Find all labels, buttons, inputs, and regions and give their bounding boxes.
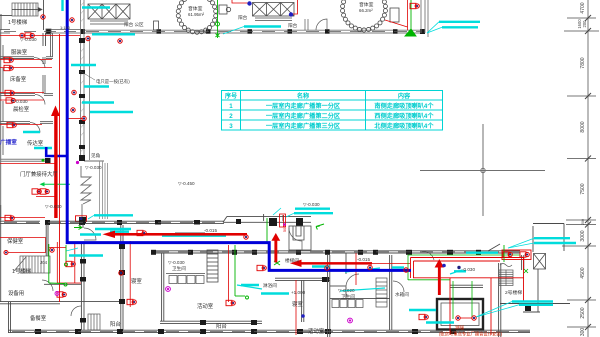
- inner wall y322: [160, 321, 262, 323]
- cyan segs top middle: [244, 22, 480, 28]
- speaker s17: [41, 15, 45, 19]
- interior wall x82: [80, 224, 84, 330]
- corridor south wall y252: [151, 251, 520, 253]
- divider vertical x51: [51, 33, 53, 57]
- magenta dot bay: [76, 161, 79, 164]
- speaker blue dot mid: [301, 314, 305, 318]
- leader line for note: [80, 71, 95, 80]
- cyan drop top: [61, 0, 63, 11]
- svg-text:名称: 名称: [297, 92, 310, 100]
- dimension tick y18: [567, 15, 596, 21]
- speaker s18: [137, 230, 146, 235]
- left block west wall: [1, 205, 11, 333]
- zone table grid: [222, 91, 443, 131]
- svg-text:(账房号重点专业厂播音设计安装): (账房号重点专业厂播音设计安装): [439, 330, 503, 337]
- dimension tick y224: [566, 222, 596, 228]
- svg-text:寝室: 寝室: [292, 300, 303, 308]
- door jamb left of round room1: [154, 21, 159, 30]
- balcony hatch bottom-left: [88, 314, 100, 330]
- green drop center: [235, 245, 249, 299]
- cyan slant leads bottom: [237, 268, 462, 291]
- svg-text:寝室: 寝室: [131, 277, 142, 285]
- wall y160 column: [45, 158, 51, 163]
- svg-text:楼梯间: 楼梯间: [285, 257, 299, 264]
- dimension tick y220: [566, 217, 596, 223]
- svg-text:J04: J04: [40, 260, 48, 265]
- speaker s1: [20, 33, 24, 37]
- bottom wing north wall y222: [0, 216, 311, 223]
- cyan segs corridor mid: [69, 215, 226, 255]
- svg-text:7500: 7500: [580, 183, 586, 194]
- svg-text:1号楼梯: 1号楼梯: [8, 18, 28, 26]
- wall y299: [330, 298, 390, 300]
- north wall columns: [45, 218, 303, 226]
- green arrow small mid: [316, 224, 324, 230]
- dimension axis line right: [587, 0, 589, 337]
- closet wall x44: [43, 33, 46, 46]
- gallery block B with X braces: [253, 3, 295, 21]
- round room 2 side box: [351, 8, 399, 31]
- bedroom wall x122: [121, 225, 123, 330]
- entrance bay zigzag: [81, 161, 104, 222]
- right wing wall column: [525, 305, 531, 311]
- svg-text:8000: 8000: [580, 121, 586, 132]
- speaker s14: [247, 1, 251, 5]
- stairs bottom-left: [14, 256, 50, 273]
- speaker s29: [404, 268, 408, 272]
- wall x82 columns: [80, 259, 86, 323]
- svg-text:▽-0.030: ▽-0.030: [45, 204, 62, 209]
- door swing diagonal right: [488, 244, 500, 251]
- wall y286 stub: [330, 285, 346, 287]
- cyan leader fan top-left: [23, 0, 135, 148]
- red arrow left mid: [103, 231, 248, 238]
- svg-text:4500: 4500: [580, 267, 586, 278]
- dimension tick y96: [567, 93, 596, 99]
- svg-text:门厅兼接待大厅: 门厅兼接待大厅: [20, 170, 58, 178]
- wall columns x82: [79, 38, 85, 149]
- room divider wall y122: [0, 122, 53, 124]
- door arc room2: [35, 95, 45, 105]
- door arc x81: [84, 228, 96, 240]
- cyan seg c: [71, 64, 96, 66]
- dimension tick y300: [567, 297, 596, 303]
- speaker hall2: [40, 189, 49, 194]
- cyan seg g: [23, 131, 40, 133]
- window marks on walls: [4, 32, 530, 332]
- svg-text:音体室: 音体室: [359, 1, 374, 8]
- red arrow up left: [51, 106, 60, 219]
- balcony wall stub left: [0, 29, 80, 34]
- svg-text:北侧走廊吸顶喇叭4个: 北侧走廊吸顶喇叭4个: [374, 122, 434, 130]
- interior wall x46: [46, 224, 48, 256]
- svg-text:-0.030: -0.030: [462, 267, 475, 272]
- svg-text:淋浴间: 淋浴间: [263, 282, 277, 289]
- windows north wall: [4, 221, 222, 223]
- door arc room1: [34, 57, 45, 68]
- cyan seg a: [82, 6, 110, 8]
- svg-text:音体室: 音体室: [188, 5, 203, 12]
- speaker s7: [5, 90, 14, 95]
- svg-text:设备用: 设备用: [8, 289, 24, 297]
- svg-text:2号楼梯: 2号楼梯: [505, 289, 522, 296]
- speaker s17b: [70, 18, 74, 22]
- cyan seg h: [34, 147, 52, 149]
- speaker s8: [6, 98, 15, 103]
- svg-text:南侧走廊吸顶喇叭4个: 南侧走廊吸顶喇叭4个: [374, 102, 434, 110]
- svg-text:阳台: 阳台: [110, 320, 121, 328]
- svg-text:200: 200: [581, 219, 585, 225]
- svg-text:61.95m²: 61.95m²: [188, 12, 205, 17]
- svg-text:活动室: 活动室: [308, 327, 325, 335]
- speaker s35: [456, 316, 460, 320]
- hall east wall lines: [100, 161, 108, 219]
- corridor east wall x80 hatched: [81, 0, 90, 160]
- red arrow up right: [435, 259, 444, 295]
- speaker s27: [226, 300, 235, 305]
- speaker s22: [50, 248, 54, 252]
- red wires bottom wing: [130, 214, 410, 335]
- svg-text:阳台: 阳台: [238, 14, 248, 21]
- svg-text:传达室: 传达室: [27, 139, 44, 147]
- round room 1 side box: [219, 5, 231, 14]
- door arc bottom-left room: [42, 280, 53, 291]
- speaker s12: [5, 215, 14, 220]
- corridor wall columns: [151, 250, 481, 255]
- speaker s21: [325, 266, 329, 270]
- SECTION: dims: [420, 0, 599, 337]
- SECTION: leftwing: [0, 0, 108, 223]
- speaker s24: [57, 292, 66, 297]
- top wing wall columns: [80, 29, 425, 34]
- cyan leads thin: [66, 22, 442, 251]
- svg-text:水箱间: 水箱间: [395, 291, 409, 298]
- SECTION: bottomwing: [0, 205, 570, 337]
- green arrow hall left: [42, 183, 70, 185]
- bottom outer wall y331: [8, 330, 530, 332]
- svg-text:1:150: 1:150: [60, 25, 71, 30]
- green loop right corridor: [408, 255, 520, 319]
- svg-text:服装室: 服装室: [11, 48, 28, 56]
- svg-text:序号: 序号: [224, 92, 237, 100]
- speaker s19: [244, 235, 248, 239]
- room divider wall y94: [0, 94, 53, 96]
- speaker s3: [86, 36, 90, 40]
- blue trunk main: [67, 0, 411, 270]
- vestibule block nested rects: [289, 226, 311, 250]
- svg-text:505: 505: [283, 226, 287, 232]
- speaker s23: [66, 261, 75, 266]
- svg-text:活动室: 活动室: [197, 302, 214, 310]
- green drop left: [49, 244, 68, 286]
- dimension tick y327: [567, 324, 596, 330]
- svg-text:一层室内走廊广播第一分区: 一层室内走廊广播第一分区: [266, 102, 341, 110]
- stairwell walls top-left: [0, 0, 44, 30]
- svg-text:一层室内走廊广播第二分区: 一层室内走廊广播第二分区: [266, 112, 341, 120]
- blue trunk branch broadcast room: [46, 147, 66, 156]
- room divider wall y160: [0, 159, 50, 161]
- round room 1 scalloped: [176, 0, 218, 34]
- svg-text:▽-0.030: ▽-0.030: [168, 260, 185, 265]
- speaker s20: [257, 265, 266, 270]
- divider x346 wall + door: [345, 253, 347, 299]
- level dot right: [457, 266, 460, 269]
- speaker s5: [4, 65, 13, 70]
- red highlight band right corridor: [411, 250, 532, 335]
- speaker blue dot right: [442, 264, 446, 268]
- svg-text:湖居: 湖居: [455, 324, 465, 331]
- speaker s15: [289, 12, 293, 16]
- green vline at speaker box: [503, 245, 505, 262]
- svg-text:66.2m²: 66.2m²: [359, 8, 373, 13]
- door arc corridor top: [422, 251, 434, 260]
- SECTION: table: [222, 91, 443, 131]
- svg-text:+1.000: +1.000: [291, 290, 306, 295]
- speaker s10: [82, 116, 86, 120]
- top wing door arc: [305, 19, 327, 30]
- stair block top-left: [12, 3, 42, 16]
- hall speaker red box: [76, 216, 87, 222]
- red wires top blocks: [232, 0, 408, 30]
- speaker hall1: [32, 189, 41, 194]
- svg-text:-0.015: -0.015: [357, 257, 370, 262]
- svg-text:3000: 3000: [580, 230, 586, 241]
- svg-text:备餐室: 备餐室: [30, 314, 47, 322]
- door arc vestibule left: [289, 228, 302, 251]
- room wall y279 right: [275, 278, 330, 280]
- windows corridor wall: [156, 251, 520, 253]
- cyan segs right: [454, 238, 576, 305]
- green riser top-right: [405, 0, 416, 36]
- speaker s4: [4, 57, 13, 62]
- speaker magenta2: [166, 287, 171, 292]
- green x2 mark: [524, 269, 528, 273]
- right wing walls: [450, 224, 570, 337]
- inner wall y322 columns: [200, 320, 257, 325]
- top wing south wall double line: [80, 30, 425, 33]
- room wall y284: [44, 283, 81, 285]
- cyan seg f: [90, 111, 133, 113]
- speaker s36: [472, 316, 476, 320]
- health room red loop: [0, 238, 46, 253]
- red riser wire vertical: [59, 34, 61, 302]
- cyan seg e: [82, 101, 114, 103]
- svg-text:▽-0.030: ▽-0.030: [85, 165, 102, 170]
- svg-text:一层室内走廊广播第三分区: 一层室内走廊广播第三分区: [266, 122, 341, 130]
- divider x391: [390, 255, 392, 330]
- svg-text:卫生间: 卫生间: [341, 293, 355, 300]
- svg-text:阳台 公区: 阳台 公区: [124, 21, 144, 28]
- svg-text:200: 200: [582, 20, 587, 28]
- red arrow up center: [271, 233, 280, 262]
- green dot on wall: [42, 159, 45, 162]
- speaker s9: [71, 108, 75, 112]
- speaker s30: [419, 314, 428, 319]
- svg-text:▽-0.030: ▽-0.030: [303, 202, 320, 207]
- svg-text:4700: 4700: [580, 2, 586, 13]
- svg-text:西侧走廊吸顶喇叭4个: 西侧走廊吸顶喇叭4个: [374, 112, 434, 120]
- green arrow small corridor: [74, 226, 82, 230]
- speaker s11: [7, 122, 16, 127]
- stairs right block: [499, 264, 513, 286]
- svg-text:床备室: 床备室: [10, 75, 27, 83]
- pool square thick: [437, 299, 483, 330]
- svg-text:阳台: 阳台: [288, 22, 298, 29]
- svg-text:7800: 7800: [580, 57, 586, 68]
- west outer wall: [1, 30, 3, 220]
- divider x302: [302, 280, 304, 322]
- wall y279 column: [322, 277, 329, 282]
- door arc wc2: [393, 281, 404, 292]
- svg-text:卫生间: 卫生间: [172, 265, 186, 272]
- gallery block A with X braces: [88, 4, 130, 24]
- speaker s31: [503, 252, 512, 257]
- hall wall columns: [79, 155, 86, 223]
- building right edge wall: [421, 0, 428, 37]
- middle-left wing east edge: [264, 214, 283, 221]
- windows top wall: [86, 31, 420, 33]
- speaker magenta3: [55, 292, 59, 296]
- red arrow left bottom: [290, 260, 372, 267]
- cyan segs bottom: [241, 209, 454, 323]
- dimension tick y31: [564, 28, 599, 34]
- svg-text:1: 1: [229, 103, 233, 110]
- dimension tick y158: [567, 156, 596, 162]
- divider x329: [328, 255, 330, 337]
- crosshair grid axis: [420, 124, 545, 216]
- svg-text:保健室: 保健室: [7, 237, 24, 245]
- pool speaker wire: [460, 317, 472, 319]
- speaker s32: [520, 252, 529, 257]
- room wall y302: [0, 302, 122, 304]
- svg-text:晨检室: 晨检室: [13, 105, 30, 113]
- svg-text:见角: 见角: [91, 152, 101, 159]
- svg-text:▽-0.450: ▽-0.450: [178, 181, 195, 186]
- svg-text:阳台: 阳台: [216, 322, 227, 330]
- svg-text:300: 300: [580, 328, 586, 337]
- round room 2 scalloped: [341, 0, 388, 32]
- gray segment on arrow shaft: [175, 232, 205, 234]
- divider vertical x44 y75-94: [43, 57, 45, 94]
- cyan seg b: [92, 33, 135, 35]
- svg-text:3: 3: [229, 123, 233, 130]
- svg-text:1号楼梯: 1号楼梯: [12, 267, 32, 275]
- divider x162: [162, 253, 164, 321]
- bedroom wall columns: [119, 244, 125, 304]
- cyan leads right thin: [476, 238, 534, 317]
- svg-text:-0.015: -0.015: [204, 228, 217, 233]
- toilet stalls left: [166, 274, 205, 284]
- SECTION: topwing: [0, 0, 428, 37]
- speaker s2: [25, 33, 34, 38]
- green drop center2: [267, 218, 280, 265]
- svg-text:2500: 2500: [580, 307, 586, 318]
- windows bottom wall: [12, 330, 530, 332]
- svg-text:广播室: 广播室: [0, 138, 17, 146]
- svg-text:▽-0.020: ▽-0.020: [338, 288, 355, 293]
- speaker s13: [118, 39, 122, 43]
- svg-text:2: 2: [229, 113, 233, 120]
- pool inner: [441, 303, 479, 326]
- bottom wall columns: [35, 329, 456, 334]
- toilet room west partition: [207, 250, 218, 282]
- svg-text:▽-0.030: ▽-0.030: [20, 37, 37, 42]
- speaker s26: [127, 299, 136, 304]
- toilet2 fixtures: [332, 278, 387, 308]
- speaker s16: [410, 3, 419, 8]
- speaker s25: [119, 271, 123, 275]
- door arc room3: [30, 123, 40, 133]
- svg-text:电只是一按(已有): 电只是一按(已有): [96, 78, 130, 85]
- svg-text:▽-0.030: ▽-0.030: [11, 99, 28, 104]
- door arc x346: [346, 274, 359, 287]
- dimension tick y246: [562, 243, 596, 249]
- cyan seg d: [84, 85, 109, 87]
- svg-text:内容: 内容: [398, 92, 411, 100]
- speaker magenta dot riser: [283, 223, 286, 226]
- red wire room rows left wing: [0, 36, 84, 284]
- health room speaker: [4, 251, 8, 255]
- green riser top-mid: [216, 0, 220, 38]
- door arc pantry: [71, 306, 81, 316]
- speaker s6: [72, 90, 76, 94]
- speaker s33: [368, 265, 372, 269]
- wall hatch fill: [81, 2, 85, 152]
- speaker magenta1: [348, 318, 353, 323]
- double door X right: [534, 254, 546, 270]
- room divider wall y57: [0, 57, 53, 59]
